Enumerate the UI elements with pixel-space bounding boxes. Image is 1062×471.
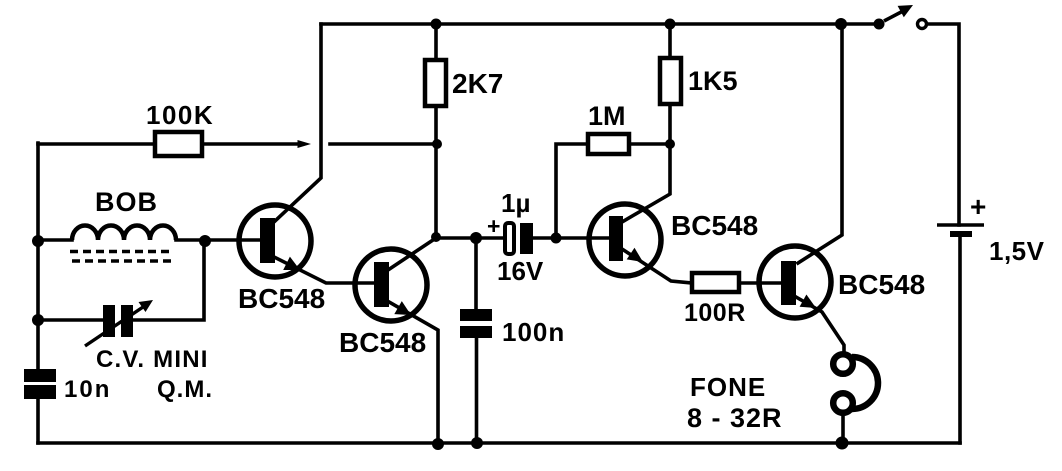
- svg-text:16V: 16V: [497, 256, 544, 286]
- variable capacitor CV adjustment arrowhead: [139, 300, 154, 312]
- headphone band arc: [852, 357, 878, 409]
- svg-text:2K7: 2K7: [452, 68, 503, 99]
- resistor R5 body: [692, 273, 739, 292]
- capacitor C1 top plate: [24, 369, 56, 382]
- svg-text:100n: 100n: [502, 317, 565, 347]
- transistor Q4 body circle: [759, 246, 831, 318]
- svg-text:100R: 100R: [684, 299, 746, 327]
- svg-text:8 - 32R: 8 - 32R: [687, 403, 783, 433]
- junction 100K / 2K7 node: [432, 139, 442, 149]
- wire 100n leads: [474, 238, 478, 443]
- svg-text:1,5V: 1,5V: [989, 236, 1045, 266]
- transistor Q3 base bar: [609, 216, 623, 261]
- wire coil row: [38, 238, 260, 242]
- wire CV row: [38, 241, 204, 320]
- svg-text:FONE: FONE: [690, 372, 766, 402]
- switch S1 lever arrowhead: [898, 5, 913, 17]
- junction 2K7 top rail: [431, 19, 442, 30]
- inductor L1 core dashed line upper: [70, 250, 173, 253]
- svg-text:100K: 100K: [146, 100, 214, 130]
- wire 100K right lead continuation: [330, 142, 436, 146]
- transistor Q4 base bar: [781, 261, 796, 305]
- wire Q4 collector riser: [798, 24, 842, 263]
- svg-text:+: +: [970, 191, 986, 222]
- wire 1u cap to Q3 base: [533, 236, 609, 240]
- switch S1 open contact: [918, 20, 927, 29]
- junction 1M / 1K5 / Q3 collector node: [665, 139, 675, 149]
- arrowhead on 100K wire: [298, 140, 312, 148]
- junction Q2 emitter bottom rail: [432, 438, 444, 450]
- svg-text:+: +: [487, 213, 500, 239]
- svg-text:10n: 10n: [64, 376, 111, 403]
- svg-text:BC548: BC548: [671, 210, 758, 241]
- variable capacitor CV right plate: [121, 305, 133, 337]
- transistor Q2 body circle: [355, 249, 427, 321]
- wire 100K left lead: [38, 142, 155, 146]
- capacitor C2 top plate: [460, 309, 492, 321]
- wire Q4 emitter to phones: [796, 297, 844, 351]
- battery B1 positive plate: [937, 223, 984, 226]
- headphone earpiece upper: [833, 354, 853, 374]
- transistor Q3 emitter arrowhead: [627, 248, 643, 262]
- svg-text:1µ: 1µ: [501, 188, 530, 218]
- capacitor C1 bottom plate: [24, 385, 56, 399]
- wire Q1 emitter to Q2 base: [274, 257, 374, 283]
- switch S1 lever: [884, 10, 905, 21]
- svg-text:BC548: BC548: [838, 269, 925, 300]
- variable capacitor CV adjustment arrow shaft: [85, 305, 146, 346]
- wire phones to bottom rail: [841, 414, 845, 443]
- transistor Q1 base bar: [260, 218, 275, 263]
- svg-text:BOB: BOB: [95, 187, 158, 217]
- svg-text:1K5: 1K5: [688, 66, 738, 96]
- junction Q4 collector top rail: [835, 18, 847, 30]
- transistor Q3 body circle: [589, 204, 661, 276]
- wire Q3 collector: [622, 144, 670, 222]
- wire Q3 emitter to 100R: [622, 249, 692, 283]
- resistor R4 body: [660, 58, 681, 104]
- svg-text:BC548: BC548: [238, 283, 325, 314]
- resistor R1 body: [155, 132, 202, 156]
- junction coil right / Q1 base: [199, 235, 211, 247]
- wire left rail: [36, 143, 40, 443]
- junction 1M / Q3 base node: [551, 233, 562, 244]
- junction 1K5 top rail: [665, 19, 676, 30]
- transistor Q2 base bar: [374, 262, 389, 307]
- wire 2K7 leads: [434, 24, 438, 144]
- transistor Q1 body circle: [239, 205, 311, 277]
- transistor Q2 emitter arrowhead: [394, 301, 411, 315]
- wire bottom rail: [38, 441, 960, 445]
- resistor R2 body: [425, 60, 446, 106]
- junction Q2 collector node: [431, 232, 441, 242]
- wire 1K5 leads: [668, 24, 672, 144]
- junction CV / left rail: [32, 314, 44, 326]
- transistor Q4 emitter arrowhead: [800, 295, 816, 309]
- junction phones bottom rail: [836, 437, 849, 450]
- wire 2K7 junction to Q2 collector node: [434, 144, 438, 237]
- svg-text:BC548: BC548: [339, 327, 426, 358]
- inductor L1 coil windings: [72, 225, 176, 240]
- wire battery negative to bottom rail: [958, 237, 962, 443]
- battery B1 negative plate: [950, 231, 972, 237]
- svg-text:Q.M.: Q.M.: [157, 376, 213, 403]
- junction 100n bottom rail: [471, 437, 483, 449]
- wire Q1 collector riser: [274, 24, 321, 222]
- svg-text:C.V. MINI: C.V. MINI: [96, 346, 209, 373]
- capacitor C2 bottom plate: [460, 326, 492, 338]
- wire node to 1u cap: [436, 236, 504, 240]
- wire top rail: [321, 22, 874, 26]
- wire Q2 collector: [388, 238, 436, 270]
- variable capacitor CV left plate: [103, 305, 115, 337]
- wire 1M leads: [556, 144, 670, 238]
- junction 100n / 1u node: [470, 232, 482, 244]
- transistor Q1 emitter arrowhead: [283, 257, 300, 270]
- switch S1 pole contact: [874, 19, 885, 30]
- headphone earpiece lower: [833, 393, 853, 413]
- wire 100R to Q4 base: [739, 281, 781, 285]
- capacitor C3 positive plate: [505, 223, 514, 254]
- capacitor C3 negative plate: [520, 223, 533, 254]
- inductor L1 core dashed line lower: [72, 259, 174, 262]
- junction coil left / left rail: [32, 235, 44, 247]
- wire 100K right lead with arrow end: [202, 142, 300, 146]
- wire switch to battery corner: [927, 24, 959, 225]
- wire Q2 emitter to bottom rail: [389, 302, 438, 443]
- resistor R3 body: [588, 134, 629, 154]
- svg-text:1M: 1M: [588, 101, 626, 131]
